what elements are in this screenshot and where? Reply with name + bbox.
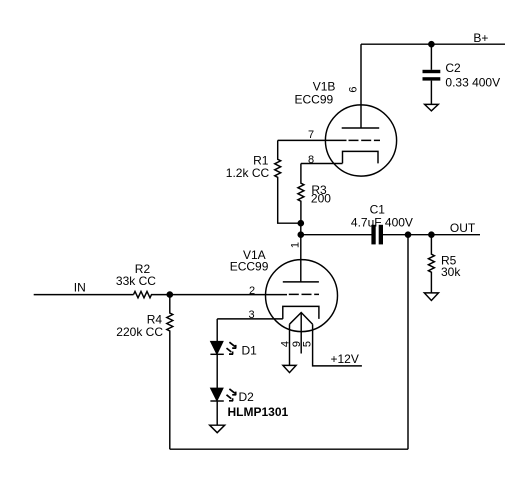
wire D2 to ground <box>216 401 218 425</box>
svg-text:2: 2 <box>249 285 255 297</box>
wire IN <box>34 294 134 296</box>
V1B cathode <box>343 151 379 163</box>
V1A grid (dashed) <box>289 293 319 295</box>
wire pin 1 (plate V1A) <box>300 235 302 282</box>
svg-text:ECC99: ECC99 <box>295 92 334 106</box>
V1A cathode <box>283 306 319 319</box>
capacitor C1 <box>371 225 383 245</box>
svg-text:D2: D2 <box>239 390 255 404</box>
wire C1 to OUT <box>383 234 480 236</box>
wire pin 9 stub <box>300 313 302 354</box>
triode V1B envelope <box>325 105 396 176</box>
svg-text:4: 4 <box>279 341 291 347</box>
wire pin 7 (grid V1B) <box>278 139 347 141</box>
wire pin 3 (cathode V1A to D1) <box>217 318 283 320</box>
wire pin 2 (grid V1A) <box>170 294 287 296</box>
resistor R3 <box>298 164 304 224</box>
ground (below C2) <box>425 104 439 111</box>
LED D1 <box>210 342 236 355</box>
node junction R2/R4/grid <box>167 291 174 298</box>
wire pin 8 (cathode V1B to R3) <box>301 163 343 165</box>
svg-text:1.2k CC: 1.2k CC <box>226 166 270 180</box>
wire D1 to D2 <box>216 354 218 388</box>
V1B plate <box>342 127 380 129</box>
svg-text:0.33 400V: 0.33 400V <box>445 75 500 89</box>
svg-text:3: 3 <box>249 309 255 321</box>
svg-text:6: 6 <box>348 86 360 92</box>
svg-text:200: 200 <box>311 192 331 206</box>
ground (pin 4) <box>283 365 296 372</box>
svg-text:C1: C1 <box>370 203 386 217</box>
svg-text:OUT: OUT <box>450 221 476 235</box>
svg-text:5: 5 <box>301 341 313 347</box>
svg-text:1: 1 <box>290 242 302 248</box>
node junction R5 <box>428 231 435 238</box>
node junction R1/R3 <box>298 220 305 227</box>
wire B+ rail <box>361 43 505 45</box>
svg-text:4.7uF 400V: 4.7uF 400V <box>351 216 413 230</box>
triode V1A envelope <box>266 260 338 332</box>
svg-text:IN: IN <box>74 280 86 294</box>
svg-text:+12V: +12V <box>331 352 359 366</box>
wire pin 3 down to D1 <box>216 319 218 342</box>
node junction B+ / C2 <box>428 41 435 48</box>
resistor R1 <box>275 140 301 223</box>
svg-text:B+: B+ <box>473 31 488 45</box>
ground (below D2) <box>210 425 225 433</box>
resistor R2 <box>134 291 170 297</box>
wire pin 5 to +12V <box>313 324 362 366</box>
V1A heater <box>290 313 313 325</box>
svg-text:30k: 30k <box>441 265 461 279</box>
V1B grid (dashed) <box>349 139 381 141</box>
wire bottom rail <box>170 448 408 450</box>
capacitor C2 <box>423 44 441 104</box>
LED D2 <box>210 388 236 401</box>
svg-text:C2: C2 <box>445 61 461 75</box>
V1A plate <box>283 281 319 283</box>
svg-text:33k CC: 33k CC <box>116 274 156 288</box>
wire pin 6 to plate V1B <box>360 44 362 128</box>
svg-text:HLMP1301: HLMP1301 <box>228 405 289 419</box>
resistor R5 <box>428 235 434 293</box>
wire feedback vertical <box>407 235 409 450</box>
svg-text:7: 7 <box>308 129 314 141</box>
svg-text:220k CC: 220k CC <box>116 325 163 339</box>
svg-text:D1: D1 <box>242 344 258 358</box>
node junction plate/output <box>298 231 305 238</box>
ground (below R5) <box>424 293 438 301</box>
svg-text:ECC99: ECC99 <box>230 260 269 274</box>
wire output node to C1 <box>301 234 372 236</box>
resistor R4 <box>167 295 173 450</box>
wire junction link <box>300 223 302 235</box>
wire pin 4 <box>289 324 291 365</box>
node junction feedback <box>405 231 412 238</box>
svg-text:8: 8 <box>308 154 314 166</box>
